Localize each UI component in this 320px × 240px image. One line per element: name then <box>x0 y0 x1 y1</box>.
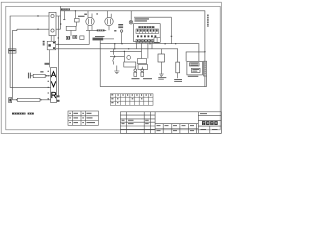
wire H5 <box>110 49 178 62</box>
wire A row <box>30 75 50 77</box>
relay unit box U1 <box>134 24 161 42</box>
title block <box>120 112 221 134</box>
meter letter A <box>51 72 56 78</box>
center column components <box>63 11 79 36</box>
long drop wire right of fuse <box>57 16 59 96</box>
wire W43 across center <box>56 30 89 44</box>
branch wire from PS to right <box>186 52 205 61</box>
arrester labels <box>132 78 140 79</box>
ground 2 label <box>158 76 166 79</box>
vertical from dark block down to bottom bus <box>99 40 101 86</box>
small label above A-row box <box>40 71 43 72</box>
strip connection dots <box>46 71 49 100</box>
contact row small parts <box>66 35 84 39</box>
junction dots H4 H5 <box>114 43 205 53</box>
arrester 2 <box>141 67 144 77</box>
rotated label right edge top <box>207 15 208 27</box>
relay box K0 <box>66 26 76 30</box>
dark component block <box>93 38 104 41</box>
bottom-left shunt component <box>9 98 51 103</box>
wire H4 <box>100 44 199 62</box>
wire H5 left extension <box>56 48 110 50</box>
left revision rows <box>120 115 155 129</box>
node circle <box>120 30 122 32</box>
terminal table B <box>110 94 153 106</box>
U1 mid indicator squares <box>137 35 156 37</box>
label on secondary wire <box>97 30 105 32</box>
left terminal strip with meters <box>51 67 57 102</box>
wire from lamp node to right drop <box>134 17 171 44</box>
earth ground 2 <box>159 70 164 76</box>
transformer T2 <box>105 11 113 31</box>
wire link H4 to H5 <box>114 44 116 49</box>
vertical label left of contactor <box>43 41 45 46</box>
current transformer on left drops <box>8 49 16 53</box>
sheet outer border <box>1 2 221 133</box>
drawing title text <box>202 121 218 125</box>
label above strip <box>45 63 50 65</box>
right section <box>197 112 199 134</box>
wire L1 bus y=16 <box>10 15 61 17</box>
wire L1 vertical drop <box>10 16 51 87</box>
switch QS <box>113 49 115 65</box>
wire pair bottom terminals <box>57 95 60 102</box>
junction dots lower cluster <box>114 51 125 58</box>
wire branch y=56.7 <box>110 51 124 62</box>
pin drop wires <box>137 43 153 59</box>
tick mark <box>114 30 116 31</box>
drawing caption text <box>12 113 34 115</box>
transformer T1 <box>86 11 94 31</box>
winding stack marks <box>118 24 123 28</box>
contactor box below fuse <box>47 36 56 50</box>
drawing inner frame <box>6 6 220 130</box>
long series resistor row R <box>17 98 40 101</box>
junction dots on buses <box>37 15 61 38</box>
stub end tick <box>63 19 65 21</box>
stub wire from top bus <box>63 11 65 19</box>
U1 terminal row 1 <box>136 29 159 34</box>
series box A row <box>33 74 45 77</box>
indicator lamp HL <box>129 11 133 24</box>
net tick label 1 <box>84 14 87 15</box>
junction dot top bus <box>75 10 76 11</box>
R1 label two lines <box>174 78 182 81</box>
table A legend <box>68 111 98 125</box>
wire branch y=51.4 <box>110 50 142 52</box>
net label mid <box>78 16 85 17</box>
U1 header text <box>138 26 154 28</box>
title block cell texts <box>122 113 218 131</box>
meter letter V <box>51 81 56 87</box>
junction dot W43 <box>58 44 59 45</box>
middle section <box>155 123 198 125</box>
tick on wire H4 <box>164 43 166 44</box>
tick on right drop <box>171 36 173 37</box>
arrester 1 <box>134 67 137 77</box>
label above top bus <box>61 8 70 10</box>
lamp label <box>135 18 150 19</box>
net tick label 2 <box>96 13 98 14</box>
top bus wire to right edge <box>61 6 205 86</box>
fuse block F1 <box>49 12 56 35</box>
meter letter R <box>52 92 56 98</box>
spare terminal cells right end of row2 <box>154 38 160 43</box>
PS label <box>188 76 199 77</box>
earth ground 1 <box>114 66 119 74</box>
bottom bus wire <box>100 76 206 87</box>
breaker small box <box>75 19 80 23</box>
wire contactor down to meter strip <box>49 50 51 68</box>
wire secondary y=30.4 <box>86 29 106 31</box>
wire stub from dark block <box>103 38 114 40</box>
contact cluster small relay boxes <box>124 56 148 70</box>
wire L2 vertical drop with jog <box>12 29 17 100</box>
resistor R1 <box>176 62 180 78</box>
capacitor C1 <box>28 73 30 79</box>
U1 terminal row 2 <box>136 39 159 42</box>
wire L2 bus y=29.2 <box>17 28 61 30</box>
wire breaker drop <box>71 11 77 36</box>
power supply box PS <box>187 61 203 75</box>
relay coil K2 <box>158 49 165 70</box>
wire from node circle down to H4 <box>121 32 123 44</box>
right terminal strip XT2 <box>204 61 207 76</box>
XT2 label marks inside <box>204 62 205 74</box>
